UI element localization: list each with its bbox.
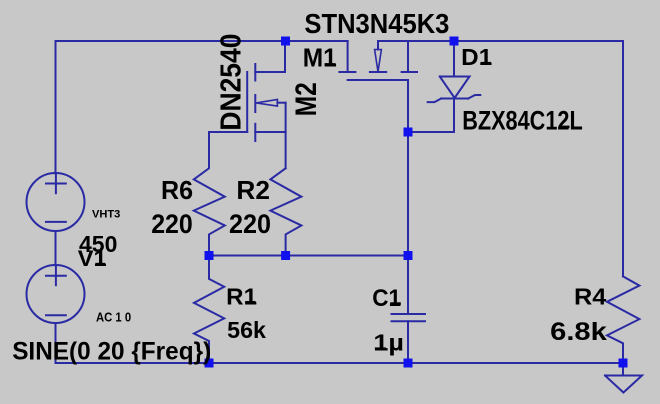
svg-text:R2: R2 (236, 175, 270, 205)
svg-text:M2: M2 (290, 82, 323, 116)
svg-text:D1: D1 (461, 44, 492, 70)
svg-text:V1: V1 (78, 246, 107, 271)
svg-text:56k: 56k (227, 317, 266, 343)
svg-text:6.8k: 6.8k (550, 318, 607, 346)
svg-text:M1: M1 (303, 42, 337, 72)
svg-text:BZX84C12L: BZX84C12L (462, 105, 583, 135)
svg-text:C1: C1 (372, 285, 401, 312)
svg-text:VHT3: VHT3 (92, 208, 120, 220)
svg-text:AC 1 0: AC 1 0 (96, 310, 131, 325)
svg-text:R6: R6 (161, 175, 193, 205)
svg-text:220: 220 (151, 209, 193, 239)
svg-text:220: 220 (229, 209, 271, 239)
svg-text:1µ: 1µ (373, 329, 404, 355)
svg-text:SINE(0 20 {Freq}): SINE(0 20 {Freq}) (12, 338, 211, 366)
svg-text:DN2540: DN2540 (216, 34, 248, 131)
svg-text:R1: R1 (226, 284, 257, 310)
svg-text:STN3N45K3: STN3N45K3 (304, 8, 449, 39)
svg-text:R4: R4 (574, 283, 607, 309)
